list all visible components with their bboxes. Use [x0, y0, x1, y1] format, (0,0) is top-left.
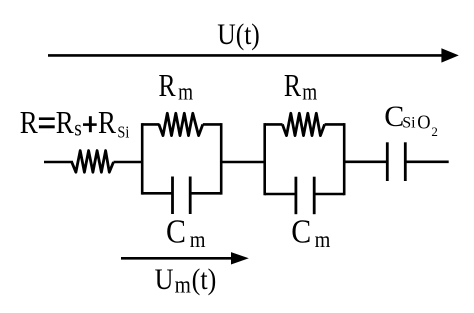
- wire between block 1 and block 2: [221, 161, 265, 164]
- svg-text:U: U: [155, 263, 174, 296]
- RC block 1 right vertical wire: [220, 123, 223, 195]
- RC block 2 left vertical wire: [263, 123, 266, 195]
- RC block 2 bottom-right wire: [314, 193, 344, 196]
- capacitor CSiO2: [387, 142, 405, 181]
- RC block 2 top-left wire: [265, 123, 283, 126]
- wire left lead: [44, 161, 73, 164]
- svg-text:m: m: [302, 79, 317, 106]
- svg-text:(t): (t): [192, 263, 217, 296]
- svg-text:R: R: [284, 68, 302, 103]
- label Um(t): [155, 263, 217, 298]
- svg-text:m: m: [175, 271, 192, 298]
- RC block 2 top-right wire: [325, 123, 345, 126]
- label CSiO2: [384, 100, 438, 139]
- capacitor Cm (block 1): [173, 177, 191, 215]
- RC block 1 top-right wire: [203, 123, 221, 126]
- svg-text:C: C: [166, 212, 186, 250]
- RC block 2 right vertical wire: [343, 123, 346, 195]
- label R=Rs+RSi: [20, 106, 130, 142]
- svg-text:O: O: [417, 112, 430, 134]
- wire block 2 to capacitor CSiO2: [344, 161, 387, 164]
- resistor Rm (block 1): [159, 113, 203, 135]
- svg-text:R: R: [98, 106, 116, 141]
- resistor Rm (block 2): [282, 113, 324, 135]
- RC block 1 bottom-left wire: [142, 192, 172, 195]
- RC block 1 bottom-right wire: [190, 192, 221, 195]
- label U(t): [217, 18, 259, 51]
- svg-text:R: R: [159, 68, 177, 103]
- svg-text:C: C: [384, 100, 404, 133]
- svg-text:m: m: [190, 227, 206, 252]
- wire right lead: [405, 161, 448, 164]
- label Rm (block 2): [284, 68, 317, 105]
- svg-text:R: R: [56, 106, 74, 141]
- svg-text:2: 2: [431, 124, 438, 139]
- RC block 2 bottom-left wire: [265, 193, 296, 196]
- label Cm (block 1): [166, 212, 206, 252]
- svg-text:R: R: [20, 106, 38, 141]
- RC block 1 top-left wire: [142, 123, 159, 126]
- label Rm (block 1): [159, 68, 194, 105]
- voltage arrow U(t): [48, 48, 459, 62]
- svg-text:m: m: [178, 79, 193, 106]
- svg-text:U(t): U(t): [217, 18, 259, 51]
- label Cm (block 2): [291, 212, 330, 252]
- svg-text:m: m: [315, 227, 331, 252]
- wire lead to block 1: [114, 161, 144, 164]
- RC block 1 left vertical wire: [141, 123, 144, 195]
- measured voltage arrow Um(t): [121, 252, 249, 264]
- svg-text:C: C: [291, 212, 311, 250]
- svg-text:s: s: [74, 115, 82, 141]
- svg-text:Si: Si: [117, 123, 129, 141]
- svg-text:Si: Si: [402, 115, 416, 132]
- capacitor Cm (block 2): [296, 177, 314, 215]
- resistor R (series Rs+RSi): [72, 151, 114, 173]
